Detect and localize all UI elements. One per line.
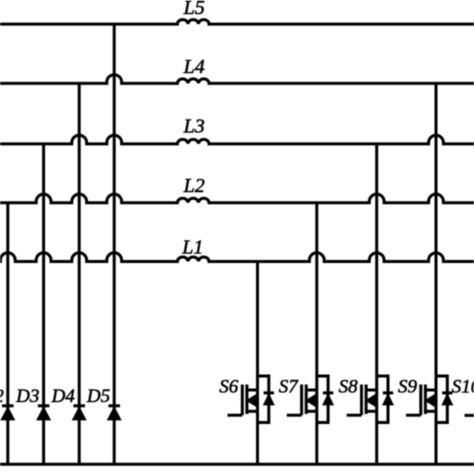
- svg-text:L3: L3: [183, 115, 205, 137]
- inductor L3 rail: [0, 135, 474, 144]
- inductor L2 rail: [0, 194, 474, 203]
- svg-text:S8: S8: [339, 377, 359, 398]
- svg-text:D3: D3: [15, 386, 39, 407]
- diode D4: [73, 406, 86, 420]
- svg-text:S10: S10: [452, 377, 474, 398]
- diode D3: [37, 406, 50, 420]
- transistor S7 (MOSFET with body diode): [287, 376, 334, 423]
- inductor L4 rail: [0, 75, 474, 84]
- svg-text:S7: S7: [279, 377, 300, 398]
- diode D2: [1, 406, 14, 420]
- transistor S8 (MOSFET with body diode): [347, 376, 394, 423]
- svg-text:L5: L5: [183, 0, 205, 19]
- wire D4 branch: vertical from L4 down to bottom rail: [78, 83, 81, 464]
- svg-text:L4: L4: [183, 56, 205, 78]
- transistor S6 (MOSFET with body diode): [228, 376, 275, 423]
- svg-text:D2: D2: [0, 386, 4, 407]
- svg-text:S9: S9: [398, 377, 418, 398]
- wire S6 branch: vertical from L1 down to bottom rail: [256, 262, 259, 465]
- wire D5 branch: vertical from L5 down to bottom rail: [113, 24, 116, 464]
- transistor S10 gate stub (clipped at right edge): [465, 414, 474, 417]
- wire bottom rail: [0, 463, 474, 466]
- svg-text:L2: L2: [183, 175, 205, 197]
- wire D2 branch: vertical from L2 down to bottom rail: [6, 203, 9, 464]
- svg-text:L1: L1: [181, 237, 203, 259]
- wire S8 branch: vertical from L3 down to bottom rail: [375, 144, 378, 464]
- wire S7 branch: vertical from L2 down to bottom rail: [315, 203, 318, 464]
- svg-text:D5: D5: [86, 386, 110, 407]
- svg-text:D4: D4: [51, 386, 76, 407]
- inductor L1 rail: [0, 253, 474, 262]
- wire D3 branch: vertical from L3 down to bottom rail: [42, 144, 45, 464]
- inductor L5 rail: [0, 20, 474, 25]
- wire S9 branch: vertical from L4 down to bottom rail: [435, 83, 438, 464]
- transistor S9 (MOSFET with body diode): [406, 376, 453, 423]
- diode D5: [108, 406, 121, 420]
- svg-text:S6: S6: [219, 377, 239, 398]
